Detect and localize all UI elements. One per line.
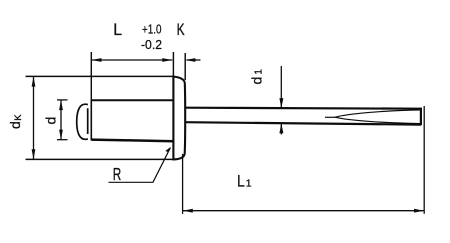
svg-text:L: L: [113, 21, 122, 39]
svg-text:-0.2: -0.2: [141, 37, 162, 52]
svg-text:+1.0: +1.0: [142, 21, 162, 36]
svg-text:d: d: [43, 117, 59, 125]
svg-text:1: 1: [246, 177, 252, 189]
svg-text:R: R: [113, 164, 122, 184]
svg-text:dK: dK: [7, 114, 24, 129]
svg-text:K: K: [177, 21, 185, 39]
svg-text:L: L: [237, 172, 245, 190]
svg-text:d1: d1: [249, 69, 265, 85]
